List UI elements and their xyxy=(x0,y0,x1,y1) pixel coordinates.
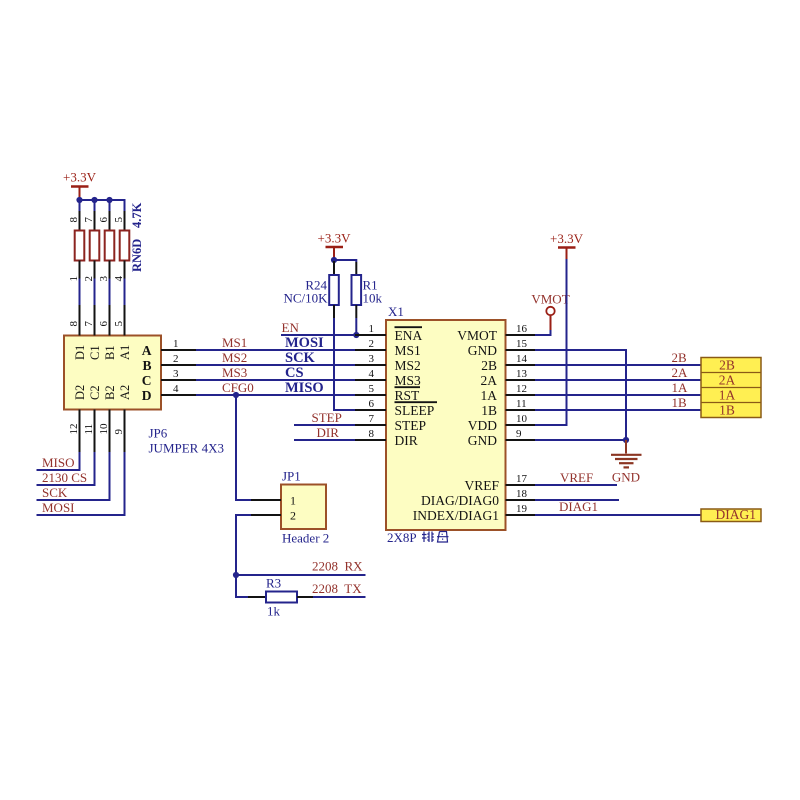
resistor RN6D element 5-4 xyxy=(113,211,129,282)
svg-text:12: 12 xyxy=(516,383,527,395)
svg-text:RST: RST xyxy=(395,388,421,403)
wire X1 to port 2B xyxy=(535,364,701,366)
wire R1 to EN net xyxy=(355,318,357,335)
svg-text:10: 10 xyxy=(98,423,110,435)
svg-text:2208 RX: 2208 RX xyxy=(312,559,363,574)
svg-text:2A: 2A xyxy=(672,365,689,380)
power +3.3V (VDD) xyxy=(550,231,584,259)
svg-text:D1: D1 xyxy=(73,345,87,360)
wire +3.3V to X1 pin10 VDD xyxy=(535,259,567,425)
svg-text:1B: 1B xyxy=(672,395,688,410)
svg-text:B2: B2 xyxy=(103,385,117,400)
junction rail-pin8 xyxy=(76,197,82,203)
wire +3.3V to R24/R1 tops xyxy=(334,260,356,262)
wire RN6D pin 2 to JP6 xyxy=(94,279,96,306)
svg-text:10k: 10k xyxy=(363,291,383,306)
svg-text:MOSI: MOSI xyxy=(285,335,324,351)
SLEEP overline xyxy=(395,401,438,403)
svg-text:RN6D: RN6D xyxy=(130,239,144,272)
svg-text:B: B xyxy=(142,358,151,373)
svg-text:7: 7 xyxy=(83,217,95,223)
svg-text:2B: 2B xyxy=(481,358,497,373)
svg-text:DIR: DIR xyxy=(395,433,418,448)
wire X1 pin17 VREF xyxy=(535,484,617,486)
X1 right pins 17-19 xyxy=(506,473,536,515)
svg-text:C: C xyxy=(142,373,152,388)
svg-text:VMOT: VMOT xyxy=(531,292,569,307)
svg-text:R3: R3 xyxy=(266,576,281,591)
wire net EN to X1 pin1 xyxy=(281,334,355,336)
svg-text:MS2: MS2 xyxy=(395,358,421,373)
svg-text:Header 2: Header 2 xyxy=(282,531,329,546)
svg-text:GND: GND xyxy=(468,343,497,358)
wire JP6 to X1 (CFG0) xyxy=(196,394,355,396)
svg-text:6: 6 xyxy=(98,217,110,223)
connector JP1 Header 2 body xyxy=(281,485,326,530)
svg-text:18: 18 xyxy=(516,488,528,500)
svg-text:C1: C1 xyxy=(88,345,102,360)
svg-text:10: 10 xyxy=(516,413,528,425)
resistor RN6D element 6-3 xyxy=(98,211,114,282)
resistor R24 NC/10K xyxy=(329,261,339,318)
svg-text:+3.3V: +3.3V xyxy=(63,170,97,185)
svg-text:5: 5 xyxy=(113,217,125,223)
svg-text:SLEEP: SLEEP xyxy=(395,403,435,418)
wire R24 to X1 pin6 SLEEP xyxy=(334,318,355,410)
svg-text:MS3: MS3 xyxy=(395,373,422,388)
svg-text:17: 17 xyxy=(516,473,528,485)
svg-text:DIAG/DIAG0: DIAG/DIAG0 xyxy=(421,493,499,508)
svg-text:GND: GND xyxy=(468,433,497,448)
ground symbol GND xyxy=(611,440,642,485)
resistor RN6D element 8-1 xyxy=(68,211,84,282)
ENA overline xyxy=(395,326,423,328)
svg-text:12: 12 xyxy=(68,424,80,435)
wire JP6 pin 10 to net SCK xyxy=(37,452,110,500)
label 2X8P paimu xyxy=(387,530,449,545)
wire X1 to port 1A xyxy=(535,394,701,396)
svg-text:EN: EN xyxy=(282,320,300,335)
junction 2208_RX xyxy=(233,572,239,578)
wire RN6D pin 1 to JP6 xyxy=(79,279,81,306)
svg-text:CS: CS xyxy=(285,365,304,381)
wire RN6D pin 4 to JP6 xyxy=(124,279,126,306)
svg-text:2: 2 xyxy=(290,508,296,522)
svg-text:X1: X1 xyxy=(388,304,404,319)
junction rail-pin7 xyxy=(91,197,97,203)
resistor R1 10k xyxy=(352,262,362,318)
wire JP6 pin 12 to net MISO xyxy=(37,452,80,470)
svg-text:1A: 1A xyxy=(719,388,736,403)
svg-text:6: 6 xyxy=(369,398,375,410)
wire CFG0 to JP1 pin1 xyxy=(236,395,251,500)
svg-text:VMOT: VMOT xyxy=(457,328,498,343)
wire net DIR to X1 pin8 xyxy=(294,439,355,441)
wire net 2208 RX xyxy=(236,574,366,576)
wire +3.3V rail to resistor network xyxy=(80,200,125,212)
svg-text:MS3: MS3 xyxy=(222,365,247,380)
JP6 top pins 8 7 6 5 xyxy=(68,305,125,336)
svg-text:VDD: VDD xyxy=(468,418,497,433)
wire JP6 to X1 (MS1) xyxy=(196,349,355,351)
svg-text:3: 3 xyxy=(98,276,110,282)
JP6 right pins 1 2 3 4 xyxy=(161,338,196,395)
wire JP6 to X1 (MS3) xyxy=(196,379,355,381)
svg-text:5: 5 xyxy=(113,321,125,327)
port block DIAG1 xyxy=(701,507,761,522)
svg-text:1: 1 xyxy=(68,276,80,282)
svg-text:VREF: VREF xyxy=(464,478,499,493)
svg-text:GND: GND xyxy=(612,470,640,485)
svg-text:MS2: MS2 xyxy=(222,350,247,365)
svg-text:8: 8 xyxy=(369,428,375,440)
svg-text:2A: 2A xyxy=(719,373,736,388)
wire X1 pin15 GND down xyxy=(535,350,626,440)
wire X1 pin18 DIAG/DIAG0 xyxy=(535,499,619,501)
svg-text:3: 3 xyxy=(369,353,375,365)
svg-text:2: 2 xyxy=(173,353,179,365)
resistor RN6D element 7-2 xyxy=(83,211,99,282)
power +3.3V (pull-ups) xyxy=(318,231,352,261)
svg-text:7: 7 xyxy=(369,413,375,425)
JP6 bottom pins 12 11 10 9 xyxy=(68,410,125,453)
svg-text:4.7K: 4.7K xyxy=(130,202,144,228)
wire junction to R3 xyxy=(236,575,248,597)
wire X1 pin16 to VMOT port xyxy=(535,330,551,335)
svg-text:ENA: ENA xyxy=(395,328,423,343)
svg-text:DIAG1: DIAG1 xyxy=(559,499,598,514)
svg-text:9: 9 xyxy=(516,428,522,440)
junction GND xyxy=(623,437,629,443)
svg-text:INDEX/DIAG1: INDEX/DIAG1 xyxy=(413,508,499,523)
svg-text:14: 14 xyxy=(516,353,528,365)
svg-text:4: 4 xyxy=(113,276,125,282)
resistor R3 1k xyxy=(248,592,313,603)
svg-text:A1: A1 xyxy=(118,345,132,360)
svg-text:MS1: MS1 xyxy=(395,343,421,358)
svg-text:NC/10K: NC/10K xyxy=(283,291,328,306)
svg-text:4: 4 xyxy=(369,368,375,380)
svg-text:B1: B1 xyxy=(103,345,117,360)
svg-text:+3.3V: +3.3V xyxy=(318,231,352,246)
svg-text:JP1: JP1 xyxy=(282,469,301,484)
svg-text:2130 CS: 2130 CS xyxy=(42,470,87,485)
IC X1 2X8P body xyxy=(386,320,506,530)
svg-text:D2: D2 xyxy=(73,385,87,400)
svg-text:DIAG1: DIAG1 xyxy=(716,507,757,522)
svg-text:MS1: MS1 xyxy=(222,335,247,350)
svg-text:16: 16 xyxy=(516,323,528,335)
svg-text:7: 7 xyxy=(83,321,95,327)
connector JP6 JUMPER 4X3 body xyxy=(64,336,161,410)
wire JP6 to X1 (MS2) xyxy=(196,364,355,366)
svg-text:1: 1 xyxy=(369,323,375,335)
svg-text:9: 9 xyxy=(113,429,125,435)
svg-text:11: 11 xyxy=(516,398,527,410)
wire X1 to port 1B xyxy=(535,409,701,411)
JP1 pin 1 xyxy=(251,493,296,507)
svg-text:+3.3V: +3.3V xyxy=(550,231,584,246)
svg-text:STEP: STEP xyxy=(312,410,342,425)
junction rail-pin6 xyxy=(106,197,112,203)
svg-text:2: 2 xyxy=(83,276,95,282)
X1 right pin names xyxy=(413,328,500,523)
svg-text:3: 3 xyxy=(173,368,179,380)
svg-text:1A: 1A xyxy=(481,388,498,403)
svg-text:2B: 2B xyxy=(719,358,735,373)
svg-text:A: A xyxy=(142,343,152,358)
svg-text:A2: A2 xyxy=(118,385,132,400)
svg-text:13: 13 xyxy=(516,368,528,380)
svg-text:1B: 1B xyxy=(719,403,735,418)
RST overline xyxy=(395,386,421,388)
X1 right pins 16-9 xyxy=(506,323,536,440)
svg-text:MOSI: MOSI xyxy=(42,500,75,515)
svg-text:1: 1 xyxy=(173,338,179,350)
svg-text:DIR: DIR xyxy=(317,425,340,440)
svg-text:1B: 1B xyxy=(481,403,497,418)
svg-text:2208 TX: 2208 TX xyxy=(312,581,362,596)
wire net 2208 TX xyxy=(313,596,366,598)
svg-text:15: 15 xyxy=(516,338,528,350)
svg-text:STEP: STEP xyxy=(395,418,427,433)
X1 left pin names xyxy=(395,328,435,448)
svg-text:2B: 2B xyxy=(672,350,688,365)
power port VMOT xyxy=(531,292,569,331)
svg-text:6: 6 xyxy=(98,321,110,327)
svg-text:JUMPER 4X3: JUMPER 4X3 xyxy=(149,441,225,456)
svg-text:4: 4 xyxy=(173,383,179,395)
JP1 pin 2 xyxy=(251,508,296,522)
wire JP1 pin2 down xyxy=(236,515,251,575)
svg-text:C2: C2 xyxy=(88,385,102,400)
svg-text:SCK: SCK xyxy=(285,350,316,366)
svg-text:8: 8 xyxy=(68,321,80,327)
svg-text:2X8P: 2X8P xyxy=(387,530,417,545)
JP6 labels D1 C1 B1 A1 / D2 C2 B2 A2 / A B C D xyxy=(73,343,152,403)
svg-text:MISO: MISO xyxy=(285,380,324,396)
junction CFG0 branch xyxy=(233,392,239,398)
svg-text:VREF: VREF xyxy=(560,470,593,485)
svg-text:1A: 1A xyxy=(672,380,689,395)
wire X1 pin19 to DIAG1 port xyxy=(535,514,701,516)
port block 2B/2A/1A/1B xyxy=(701,358,761,418)
junction +3.3V/R24 xyxy=(331,257,337,263)
wire X1 pin9 GND xyxy=(535,439,626,441)
wire X1 to port 2A xyxy=(535,379,701,381)
svg-text:5: 5 xyxy=(369,383,375,395)
svg-text:2: 2 xyxy=(369,338,375,350)
wire net STEP to X1 pin7 xyxy=(294,424,355,426)
svg-text:11: 11 xyxy=(83,424,95,435)
svg-text:JP6: JP6 xyxy=(149,426,168,441)
power +3.3V (RN6D pull-up rail) xyxy=(63,170,97,201)
svg-text:8: 8 xyxy=(68,217,80,223)
svg-text:SCK: SCK xyxy=(42,485,68,500)
svg-text:MISO: MISO xyxy=(42,455,75,470)
svg-text:19: 19 xyxy=(516,503,528,515)
junction R1/EN xyxy=(353,332,359,338)
svg-text:D: D xyxy=(142,388,152,403)
wire RN6D pin 3 to JP6 xyxy=(109,279,111,306)
svg-text:1k: 1k xyxy=(267,604,281,619)
wire JP6 pin 11 to net 2130 CS xyxy=(37,452,95,485)
svg-text:2A: 2A xyxy=(481,373,498,388)
wire JP6 pin 9 to net MOSI xyxy=(37,452,125,515)
svg-text:1: 1 xyxy=(290,493,296,507)
X1 left pins 1-8 xyxy=(355,323,386,440)
